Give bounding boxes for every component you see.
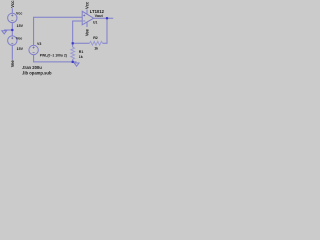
resistor R2 xyxy=(89,41,102,45)
ground xyxy=(74,63,79,66)
wire R2 right to output node xyxy=(103,18,107,43)
svg-text:.lib opamp.sub: .lib opamp.sub xyxy=(22,71,52,76)
svg-text:1k: 1k xyxy=(79,55,83,59)
svg-text:Vcc: Vcc xyxy=(84,1,89,9)
op-amp U1 triangle xyxy=(82,11,94,24)
svg-text:R1: R1 xyxy=(79,50,84,54)
resistor R1 xyxy=(71,47,75,59)
svg-text:R2: R2 xyxy=(93,36,98,40)
svg-text:15V: 15V xyxy=(17,24,24,28)
wire xyxy=(11,45,13,60)
svg-text:15V: 15V xyxy=(17,47,24,51)
junction node feedback-R1-R2 xyxy=(72,42,74,44)
source V2 minus mark xyxy=(11,42,13,44)
wire V+ pin xyxy=(86,10,88,15)
wire ground stub xyxy=(4,29,12,31)
svg-text:Vee: Vee xyxy=(84,28,89,36)
op-amp + input glyph xyxy=(11,14,85,52)
background xyxy=(0,0,120,80)
source V1 plus mark xyxy=(11,14,13,16)
wire R1 bottom xyxy=(72,59,74,62)
svg-text:Vcc: Vcc xyxy=(10,0,15,8)
voltage source V2 (Vee 15V) xyxy=(8,36,17,45)
svg-text:Vout: Vout xyxy=(95,14,104,18)
wire xyxy=(11,23,13,36)
junction node ground rail xyxy=(72,61,74,63)
source V2 plus mark xyxy=(11,37,13,39)
wire V3 bottom to ground rail xyxy=(34,55,77,62)
source V1 minus mark xyxy=(11,20,13,22)
wire V- pin xyxy=(86,22,88,27)
svg-text:V3: V3 xyxy=(37,42,41,46)
wire feedback up to minus input xyxy=(73,21,83,47)
voltage source V1 (Vcc 15V) xyxy=(8,13,17,22)
wire output xyxy=(94,17,114,19)
ground xyxy=(2,31,7,34)
svg-text:PWL(0 -1 100u 2): PWL(0 -1 100u 2) xyxy=(40,53,67,57)
svg-text:1k: 1k xyxy=(94,47,98,51)
junction node output xyxy=(106,17,108,19)
wire Vcc flag to V1 xyxy=(11,8,13,13)
wire plus-input rail xyxy=(34,17,83,45)
source V3 plus mark xyxy=(33,47,35,49)
voltage source V3 (PWL) xyxy=(29,45,38,54)
junction node V1-V2-gnd xyxy=(11,29,13,31)
svg-text:U1: U1 xyxy=(93,21,97,25)
op-amp - input glyph xyxy=(83,20,85,22)
svg-text:.tran 200u: .tran 200u xyxy=(22,65,42,70)
svg-text:Vcc: Vcc xyxy=(16,12,22,16)
source V3 minus mark xyxy=(33,52,35,54)
svg-text:Vee: Vee xyxy=(10,60,15,68)
svg-text:Vee: Vee xyxy=(16,37,22,41)
wire feedback rail to R2 xyxy=(73,42,90,44)
